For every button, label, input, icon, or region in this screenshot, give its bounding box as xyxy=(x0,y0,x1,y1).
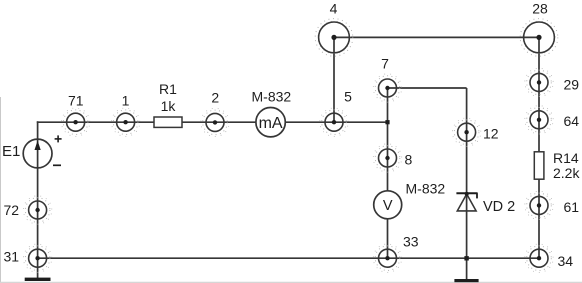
node 28 xyxy=(520,19,558,57)
wire: main horizontal E1 corner to junction near node 7 xyxy=(37,121,388,123)
junction at VD2 branch and bottom wire xyxy=(464,256,468,260)
svg-text:4: 4 xyxy=(330,1,338,17)
wire: VD2 branch vertical down to ground xyxy=(466,88,468,281)
svg-text:mA: mA xyxy=(259,115,283,132)
svg-text:28: 28 xyxy=(532,1,548,17)
node 61 xyxy=(525,191,553,219)
junction at node 7 branch and main wire xyxy=(385,120,389,124)
voltage source E1 xyxy=(23,135,61,168)
node 12 xyxy=(452,118,480,146)
node 7 xyxy=(373,74,401,102)
svg-text:1k: 1k xyxy=(161,98,177,114)
svg-text:5: 5 xyxy=(344,88,352,104)
ammeter U1 M-832 (mA) xyxy=(256,108,285,137)
node 72 xyxy=(23,196,51,224)
node 31 xyxy=(23,244,51,272)
svg-text:E1: E1 xyxy=(2,143,20,160)
svg-text:1: 1 xyxy=(122,93,130,109)
svg-text:M-832: M-832 xyxy=(406,180,446,196)
voltmeter U2 M-832 (V) xyxy=(374,191,402,219)
ground (below node 31) xyxy=(25,278,51,281)
node 2 xyxy=(201,108,229,136)
resistor R14 xyxy=(534,152,544,179)
node 71 xyxy=(61,108,89,136)
node 1 xyxy=(111,108,139,136)
svg-text:V: V xyxy=(383,198,393,214)
svg-text:71: 71 xyxy=(68,93,84,109)
svg-text:R14: R14 xyxy=(553,150,579,166)
node 33 xyxy=(373,244,401,272)
svg-text:31: 31 xyxy=(4,248,20,264)
svg-text:2.2k: 2.2k xyxy=(553,165,580,181)
wire: node 7 horizontal to VD2 branch corner xyxy=(388,87,467,89)
wire: node 7 down through V meter to node 33 xyxy=(387,88,389,258)
svg-text:R1: R1 xyxy=(159,81,177,97)
node 5 xyxy=(320,108,348,136)
wire: right column node 28 down to node 34 xyxy=(538,37,540,258)
svg-text:33: 33 xyxy=(403,233,419,249)
svg-text:64: 64 xyxy=(564,113,580,129)
wire: top horizontal node 4 to node 28 xyxy=(334,36,539,38)
resistor R1 xyxy=(154,117,182,127)
svg-text:12: 12 xyxy=(483,125,499,141)
svg-text:2: 2 xyxy=(211,89,219,105)
wire: bottom horizontal node 31 to node 34 xyxy=(38,257,539,259)
svg-text:29: 29 xyxy=(564,76,580,92)
zener diode VD2 xyxy=(456,192,477,211)
svg-text:72: 72 xyxy=(4,202,20,218)
node 29 xyxy=(525,68,553,96)
svg-text:61: 61 xyxy=(564,199,580,215)
svg-text:VD 2: VD 2 xyxy=(483,199,515,215)
svg-text:8: 8 xyxy=(405,151,413,167)
svg-text:M-832: M-832 xyxy=(252,88,292,104)
svg-text:7: 7 xyxy=(381,55,389,71)
ground (below VD2 branch) xyxy=(454,279,478,282)
node 64 xyxy=(525,106,553,134)
node 8 xyxy=(373,144,401,172)
wire: E1 left column vertical (top corner to ground) xyxy=(37,121,39,279)
node 34 xyxy=(525,244,553,272)
svg-text:34: 34 xyxy=(558,253,574,269)
wire: node 5 to node 4 vertical xyxy=(333,37,335,122)
node 4 xyxy=(315,19,353,57)
